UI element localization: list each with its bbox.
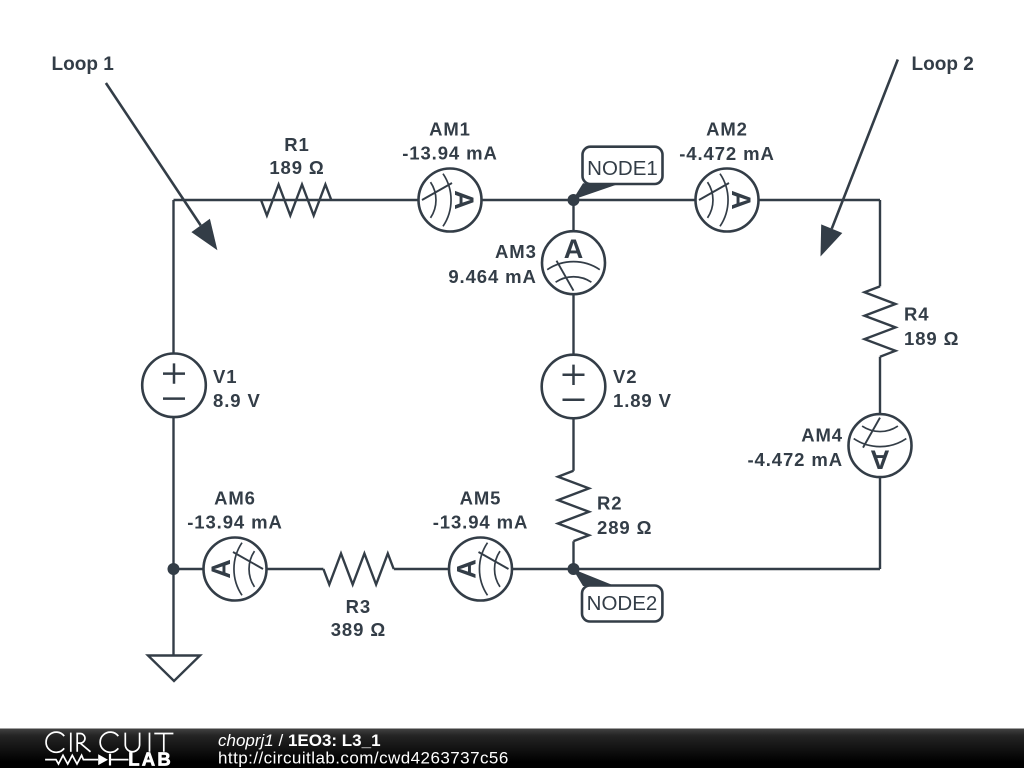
svg-text:-13.94 mA: -13.94 mA xyxy=(187,512,283,533)
svg-text:LAB: LAB xyxy=(128,749,173,768)
svg-text:AM1: AM1 xyxy=(429,119,471,140)
svg-text:-4.472 mA: -4.472 mA xyxy=(747,449,843,470)
ammeter AM5 xyxy=(449,538,512,601)
svg-text:-4.472 mA: -4.472 mA xyxy=(679,143,775,164)
svg-text:AM2: AM2 xyxy=(706,119,748,140)
ammeter AM6 xyxy=(204,538,267,601)
svg-text:http://circuitlab.com/cwd42637: http://circuitlab.com/cwd4263737c56 xyxy=(218,749,509,768)
svg-text:AM4: AM4 xyxy=(801,425,843,446)
wire right lower xyxy=(879,357,881,569)
loop 1 arrow line xyxy=(106,83,201,225)
node NODE2 dot xyxy=(568,563,580,575)
svg-text:V1: V1 xyxy=(213,366,237,387)
svg-text:189 Ω: 189 Ω xyxy=(269,157,324,178)
svg-text:AM5: AM5 xyxy=(460,488,502,509)
svg-text:289 Ω: 289 Ω xyxy=(597,517,652,538)
svg-text:-13.94 mA: -13.94 mA xyxy=(433,512,529,533)
wire middle lower xyxy=(572,541,574,569)
resistor R2 xyxy=(558,471,589,541)
svg-text:Loop 2: Loop 2 xyxy=(912,54,974,75)
wire bottom left xyxy=(174,568,324,570)
resistor R4 xyxy=(865,286,896,356)
loop 2 arrow line xyxy=(832,60,898,229)
ammeter AM4 xyxy=(849,414,912,477)
logo CIRCUIT text xyxy=(46,732,173,752)
wire bottom right xyxy=(394,568,880,570)
logo resistor squiggle xyxy=(45,755,98,764)
footer bar xyxy=(0,729,1024,768)
svg-text:R2: R2 xyxy=(597,493,622,514)
svg-text:V2: V2 xyxy=(613,366,637,387)
svg-text:R4: R4 xyxy=(904,304,929,325)
svg-text:choprj1 / 1EO3: L3_1: choprj1 / 1EO3: L3_1 xyxy=(218,731,381,750)
wire right upper xyxy=(879,200,881,286)
svg-text:AM6: AM6 xyxy=(214,488,256,509)
node NODE1 pointer xyxy=(573,183,617,200)
svg-text:8.9 V: 8.9 V xyxy=(213,390,261,411)
svg-text:R3: R3 xyxy=(346,596,371,617)
node NODE2 flag xyxy=(582,586,662,622)
svg-text:-13.94 mA: -13.94 mA xyxy=(402,143,498,164)
node NODE1 dot xyxy=(568,194,580,206)
svg-text:1.89 V: 1.89 V xyxy=(613,390,672,411)
svg-text:389 Ω: 389 Ω xyxy=(331,619,386,640)
logo diode xyxy=(98,754,108,765)
ground xyxy=(148,656,200,682)
resistor R3 xyxy=(323,554,393,585)
svg-text:R1: R1 xyxy=(284,134,309,155)
ammeter AM2 xyxy=(696,169,759,232)
svg-text:AM3: AM3 xyxy=(495,241,537,262)
svg-text:NODE2: NODE2 xyxy=(587,592,658,615)
svg-text:189 Ω: 189 Ω xyxy=(904,328,959,349)
wire left xyxy=(172,200,174,656)
svg-text:9.464 mA: 9.464 mA xyxy=(448,266,536,287)
loop 1 arrowhead xyxy=(191,219,217,251)
wire top xyxy=(174,199,881,201)
loop 2 arrowhead xyxy=(821,224,843,256)
resistor R1 xyxy=(261,185,331,216)
node NODE1 flag xyxy=(583,147,663,184)
ammeter AM3 xyxy=(542,231,605,294)
svg-text:NODE1: NODE1 xyxy=(587,157,658,180)
node junction dot left xyxy=(168,563,180,575)
node NODE2 pointer xyxy=(573,569,615,586)
svg-text:Loop 1: Loop 1 xyxy=(52,54,115,75)
voltage source V1 xyxy=(142,354,206,418)
wire middle upper xyxy=(572,200,574,471)
ammeter AM1 xyxy=(419,169,482,232)
voltage source V2 xyxy=(542,355,606,419)
